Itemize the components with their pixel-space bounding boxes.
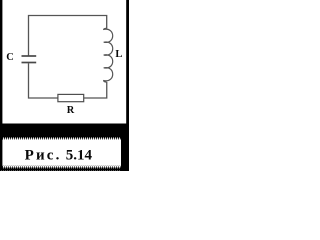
lower black band with serrated top edge (1, 165, 129, 167)
resistor R body (58, 94, 84, 101)
right frame stripe (126, 0, 129, 171)
capacitor C bottom plate (22, 62, 37, 64)
wire: bottom right segment + right side lower (84, 82, 107, 98)
wire: left side lower (capacitor to bottom) + bottom left segment (29, 63, 59, 98)
svg-text:Рис.: Рис. (25, 148, 62, 164)
right black bar (caption area) (121, 124, 129, 172)
svg-text:R: R (67, 105, 75, 116)
svg-text:L: L (115, 49, 122, 60)
upper black band with serrated bottom edge (0, 124, 129, 138)
left frame stripe (0, 0, 2, 171)
wire: top side + upper corners (29, 16, 107, 56)
svg-text:C: C (6, 52, 14, 63)
inductor L coil (104, 28, 113, 82)
capacitor C top plate (22, 55, 37, 57)
svg-text:5.14: 5.14 (66, 148, 93, 164)
